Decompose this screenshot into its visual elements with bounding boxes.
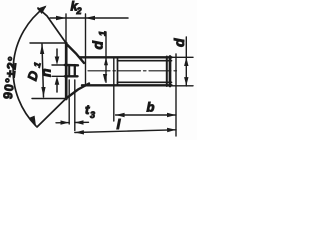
d1 arrow top [104,57,108,65]
shank bottom line [82,84,172,86]
cone upper side [66,44,84,64]
inner thread top [118,60,172,62]
k2 arrow right [85,16,95,20]
extended cone line upper [38,8,66,43]
svg-text:1: 1 [98,31,108,36]
svg-text:d: d [90,41,106,50]
svg-text:1: 1 [32,61,43,68]
k2 arrow left [56,16,66,20]
d dimension line [185,37,187,86]
shank top line [80,56,172,58]
slot bottom [65,75,78,77]
n extension lines [52,64,64,66]
D1 arrow bottom [41,87,45,97]
n arrow top (outside, pointing down) [56,49,58,58]
t3 dimension arrows [56,122,69,124]
arc arrowhead top [37,6,47,15]
b extension left [113,57,115,121]
d arrow bottom [184,77,188,86]
svg-text:b: b [147,100,155,115]
arc arrowhead bottom [29,116,36,127]
end face [169,57,172,87]
angle arc 90deg dimension [13,7,45,126]
thread boundary [117,57,119,85]
D1 extension bottom [32,98,66,100]
b/l extension right [175,54,177,136]
d1 arrow bottom [103,74,107,82]
svg-text:n: n [38,68,54,77]
l dimension line [75,130,176,133]
extended cone line lower [37,99,66,128]
d1 dimension line [105,32,107,82]
head face vertical [65,14,67,43]
inner thread bottom [118,81,172,83]
svg-text:2: 2 [76,6,82,16]
centerline axis [88,70,178,72]
k2 extension right / junction vertical [85,14,87,86]
D1 dimension line [42,44,44,97]
b dimension line [116,114,176,116]
svg-text:l: l [117,116,122,132]
t3 extension right / l extension [74,80,76,131]
d extension top [172,56,194,58]
slot top [65,64,78,67]
d arrow top [184,57,188,66]
D1 arrow top [40,44,44,54]
k2 dimension line [50,17,128,19]
n arrow bottom (outside, pointing up) [56,84,58,93]
svg-text:d: d [171,38,187,47]
slot inner vertical [68,65,70,76]
cone lower side [66,84,89,99]
t3 extension left [68,80,70,124]
D1 extension top [30,42,66,44]
slot end vertical [74,65,76,76]
svg-text:3: 3 [90,110,95,120]
chamfer line [166,57,168,87]
d extension bottom [172,85,194,87]
